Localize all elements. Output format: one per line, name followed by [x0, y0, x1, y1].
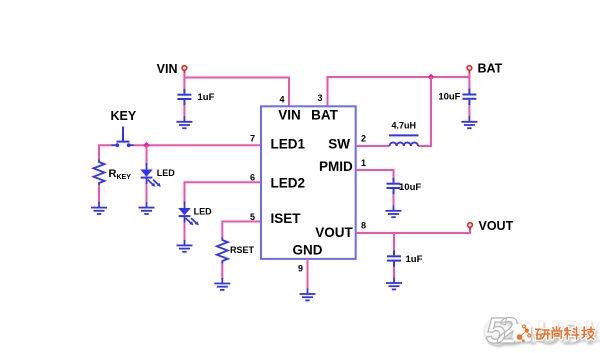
wire riser from L1 to BAT net: [418, 77, 431, 146]
svg-text:10uF: 10uF: [399, 182, 421, 193]
watermark logo 52AUDIO: [484, 310, 600, 351]
wire LED1 branch: [146, 145, 148, 203]
ground for D2: [177, 240, 193, 252]
LED D1: [140, 163, 175, 187]
junction node B: [428, 74, 435, 81]
svg-text:3: 3: [317, 93, 322, 103]
ground for C3: [386, 205, 402, 217]
char 研: [536, 329, 551, 339]
terminal VIN: [157, 62, 187, 76]
wire pin 8 to VOUT: [356, 230, 470, 233]
wire pin 1 to C3: [356, 170, 394, 206]
svg-text:LED1: LED1: [271, 136, 306, 151]
capacitor C1 1uF: [177, 89, 214, 105]
ground for RSET: [214, 278, 230, 290]
svg-text:9: 9: [298, 263, 303, 273]
char 尚: [552, 327, 563, 339]
svg-text:1: 1: [361, 158, 366, 168]
svg-text:VOUT: VOUT: [479, 219, 514, 233]
svg-text:VIN: VIN: [278, 108, 301, 123]
svg-text:4.7uH: 4.7uH: [392, 121, 417, 131]
wire C2 branch: [468, 77, 470, 117]
svg-text:LED2: LED2: [271, 176, 306, 191]
switch KEY: [111, 109, 137, 147]
watermark text glow: [536, 327, 595, 340]
watermark text 研尚科技: [536, 327, 595, 340]
char 技: [582, 327, 595, 339]
ground for C1: [176, 116, 192, 128]
terminal BAT: [467, 62, 503, 76]
svg-text:8: 8: [361, 220, 366, 230]
ground for C4: [386, 278, 402, 290]
wire pin 2 to L1: [356, 145, 390, 147]
ground for D1: [139, 202, 155, 214]
terminal VOUT: [468, 219, 514, 233]
capacitor C4 1uF: [387, 250, 423, 266]
capacitor C2 10uF: [438, 89, 476, 105]
wire pin 5 to RSET: [222, 222, 261, 280]
svg-text:KEY: KEY: [111, 109, 137, 123]
svg-text:VIN: VIN: [157, 62, 178, 76]
ground for pin 9: [300, 289, 316, 301]
svg-text:SW: SW: [328, 136, 350, 151]
svg-text:RSET: RSET: [230, 245, 255, 255]
resistor RSET: [217, 238, 255, 264]
wire KEY left to R_KEY: [99, 145, 112, 203]
wire C4 branch: [393, 233, 395, 279]
char 科: [565, 327, 579, 339]
svg-text:BAT: BAT: [478, 62, 503, 76]
svg-text:R: R: [109, 168, 117, 180]
ground for C2: [461, 116, 477, 128]
svg-text:7: 7: [250, 134, 255, 144]
wire KEY right to pin 7: [134, 144, 262, 146]
capacitor C3 10uF: [387, 178, 422, 194]
svg-text:4: 4: [279, 95, 284, 105]
svg-text:ISET: ISET: [271, 211, 302, 226]
wire VIN terminal to pin 4: [184, 73, 289, 106]
resistor R_KEY: [94, 160, 132, 186]
wire pin 6 to LED2: [185, 182, 262, 241]
wire pin 9 GND: [307, 259, 309, 290]
svg-text:GND: GND: [293, 242, 323, 257]
svg-text:1uF: 1uF: [198, 92, 215, 103]
svg-text:6: 6: [250, 172, 255, 182]
IC U1 body: [261, 106, 356, 259]
svg-text:10uF: 10uF: [438, 91, 460, 102]
LED D2: [178, 202, 212, 226]
svg-text:LED: LED: [194, 207, 213, 217]
wire C1 branch: [183, 78, 185, 118]
svg-text:2: 2: [361, 134, 366, 144]
inductor L1 4.7uH: [389, 121, 419, 147]
svg-text:BAT: BAT: [311, 108, 338, 123]
svg-text:LED: LED: [157, 168, 176, 178]
svg-text:PMID: PMID: [319, 159, 353, 174]
svg-text:1uF: 1uF: [406, 254, 423, 265]
svg-text:5: 5: [250, 212, 255, 222]
junction node A: [143, 142, 150, 149]
watermark icon: [514, 324, 532, 342]
wire BAT to pin 3: [328, 73, 470, 106]
ground for R_KEY: [91, 202, 107, 214]
svg-text:KEY: KEY: [117, 174, 132, 181]
svg-text:VOUT: VOUT: [315, 225, 353, 240]
